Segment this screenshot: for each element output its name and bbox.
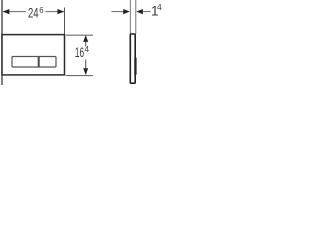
svg-text:4: 4 bbox=[157, 2, 162, 12]
svg-text:16: 16 bbox=[75, 45, 84, 60]
svg-text:6: 6 bbox=[39, 5, 43, 15]
svg-text:4: 4 bbox=[85, 44, 90, 54]
svg-text:24: 24 bbox=[28, 6, 39, 21]
